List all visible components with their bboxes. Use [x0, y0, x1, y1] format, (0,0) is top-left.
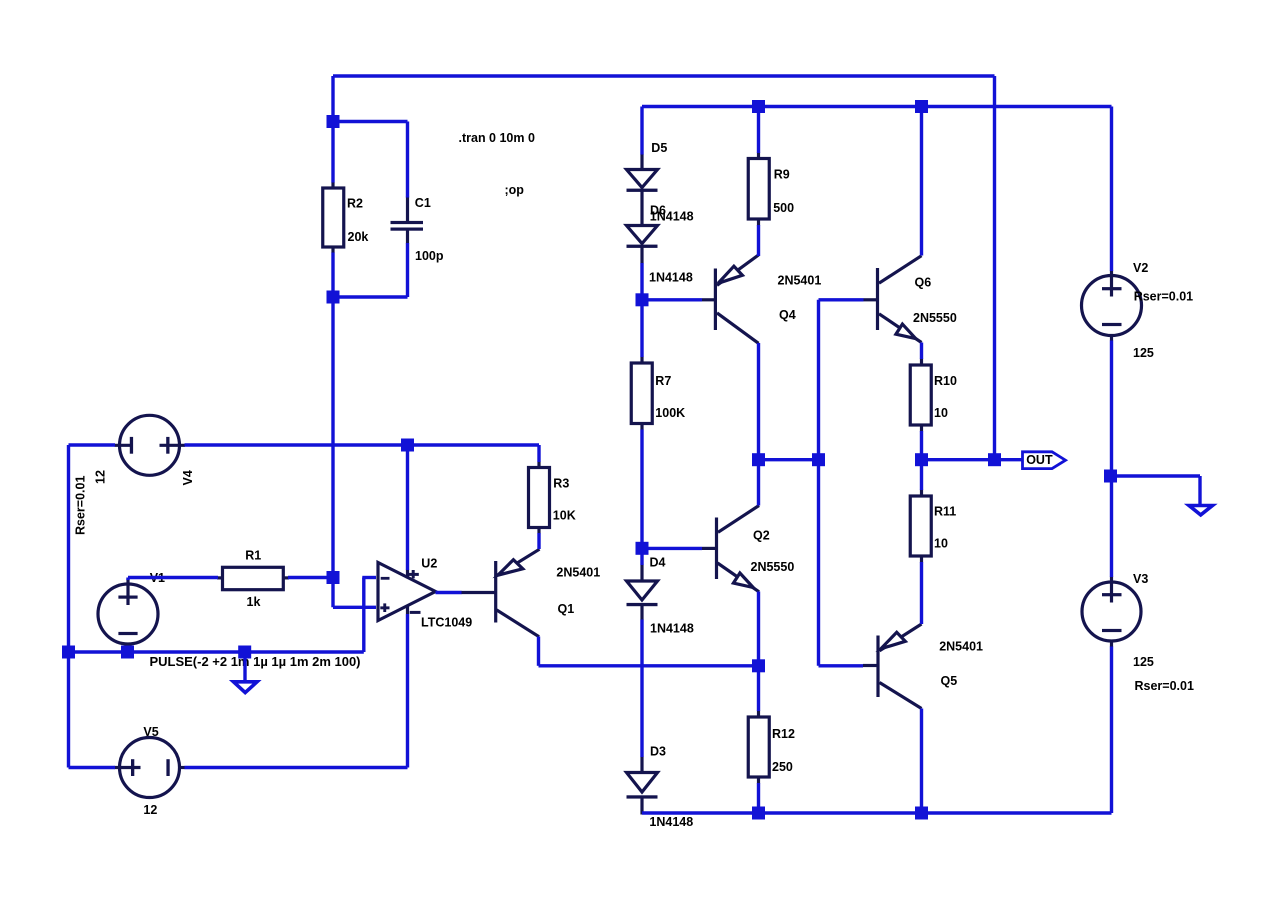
svg-text:D5: D5	[651, 141, 667, 155]
wire opamp vplus feed	[406, 445, 409, 570]
svg-text:2N5401: 2N5401	[556, 566, 600, 580]
resistor R1	[217, 567, 289, 589]
svg-text:250: 250	[772, 760, 793, 774]
wire V1 to R1	[128, 576, 218, 579]
wire R2 column below body	[331, 253, 334, 608]
svg-text:U2: U2	[421, 556, 437, 570]
wire x994 column	[993, 76, 996, 460]
junction node Q4 collector y459	[752, 453, 765, 466]
junction node V2 V3 mid	[1104, 470, 1117, 483]
svg-text:V4: V4	[181, 470, 195, 485]
junction node x818 y459	[812, 453, 825, 466]
voltage source V3	[1082, 577, 1141, 648]
svg-text:Q5: Q5	[941, 674, 958, 688]
resistor R11	[910, 490, 931, 563]
wire R3 top feed	[537, 445, 540, 462]
transistor Q4	[702, 255, 759, 343]
resistor R10	[910, 359, 931, 432]
wire pulse rail y651	[69, 650, 364, 653]
svg-text:20k: 20k	[348, 230, 369, 244]
svg-text:R1: R1	[245, 549, 261, 563]
wire C1 column upper	[406, 122, 409, 198]
net flag OUT	[1023, 452, 1066, 469]
wire Q5 collector column	[920, 709, 923, 814]
svg-text:10K: 10K	[553, 509, 576, 523]
svg-text:Q2: Q2	[753, 529, 770, 543]
wire ground1 stem	[243, 652, 246, 682]
svg-text:R12: R12	[772, 727, 795, 741]
wire Q4 collector to Q2 collector	[757, 343, 760, 506]
wire to right ground	[1111, 474, 1201, 477]
svg-text:R9: R9	[774, 168, 790, 182]
wire y459 to OUT	[922, 458, 1023, 461]
wire left column x68	[67, 445, 70, 768]
wire Q2 base	[642, 547, 702, 550]
wire R12 bottom to rail	[757, 783, 760, 813]
junction node ground tap	[238, 646, 251, 659]
wire Q6 base	[819, 298, 864, 301]
svg-text:1N4148: 1N4148	[649, 271, 693, 285]
wire Q1 collector drop	[537, 637, 540, 666]
transistor Q2	[702, 506, 759, 592]
svg-text:100K: 100K	[655, 406, 685, 420]
wire y666 Q1 collector to junction	[539, 664, 759, 667]
svg-text:OUT: OUT	[1026, 453, 1053, 467]
voltage source V5	[115, 738, 186, 798]
wire inverting input to ground rail	[362, 578, 365, 653]
svg-text:R7: R7	[655, 374, 671, 388]
junction node Q6 collector top	[915, 100, 928, 113]
wire y445 V4 to R3	[185, 443, 540, 446]
junction node y666	[752, 659, 765, 672]
junction node OUT tap	[988, 453, 1001, 466]
svg-text:LTC1049: LTC1049	[421, 616, 472, 630]
diode D3	[627, 757, 658, 815]
wire rail y106	[642, 105, 1112, 108]
wire D6 to R7	[640, 263, 643, 357]
wire R2 column above body	[331, 122, 334, 183]
resistor R7	[631, 357, 652, 431]
svg-text:D6: D6	[650, 204, 666, 218]
junction node V1 bottom	[121, 646, 134, 659]
resistor R12	[748, 711, 769, 784]
junction node R7 bottom	[636, 542, 649, 555]
svg-text:2N5401: 2N5401	[778, 273, 822, 287]
junction node Q4 base rail	[636, 293, 649, 306]
wire y459 between 758 and 818	[759, 458, 819, 461]
wire V3 bottom to rail	[1110, 647, 1113, 814]
wire y767 V5 to feedback column	[185, 766, 408, 769]
diode D4	[627, 565, 658, 621]
svg-text:R11: R11	[934, 505, 956, 519]
svg-text:D4: D4	[650, 556, 666, 570]
svg-text:Q6: Q6	[915, 275, 932, 289]
junction node R10 R11 mid	[915, 453, 928, 466]
wire Q6 emitter to R10	[920, 343, 923, 360]
wire bottom rail y813	[642, 811, 1112, 814]
wire x818 column	[817, 300, 820, 666]
wire Q6 collector column	[920, 107, 923, 256]
wire R1 to junction	[288, 576, 333, 579]
wire between D4 and D3	[640, 620, 643, 758]
resistor R9	[748, 153, 769, 226]
svg-text:R10: R10	[934, 374, 957, 388]
wire Q4 base	[642, 298, 702, 301]
svg-text:100p: 100p	[415, 249, 444, 263]
svg-text:1k: 1k	[247, 595, 261, 609]
svg-text:Rser=0.01: Rser=0.01	[1135, 679, 1194, 693]
svg-text:1N4148: 1N4148	[649, 815, 693, 829]
wire y767 left of V5	[69, 766, 116, 769]
capacitor C1	[391, 197, 424, 244]
wire ground2 stem	[1198, 476, 1201, 505]
junction node feedback y445	[401, 439, 414, 452]
ground at pulse rail	[234, 682, 258, 693]
svg-text:R2: R2	[347, 196, 363, 210]
ground at V2 V3 mid	[1189, 506, 1213, 515]
wire x333 top stub	[331, 76, 334, 122]
svg-text:10: 10	[934, 536, 948, 550]
svg-text:Q4: Q4	[779, 308, 796, 322]
wire R7 to D4	[640, 430, 643, 566]
wire R9 bottom to Q4 emitter	[757, 225, 760, 256]
svg-text:D3: D3	[650, 745, 666, 759]
wire D5 feed	[640, 107, 643, 155]
wire top rail y76	[333, 74, 995, 77]
voltage source V2	[1082, 271, 1142, 342]
junction node Q5 collector rail	[915, 807, 928, 820]
wire C1 column lower	[406, 243, 409, 297]
junction node inverting input	[327, 571, 340, 584]
wire Q5 base	[819, 664, 864, 667]
wire R2 bottom to C1 bottom	[333, 295, 408, 298]
wire R10 to R11	[920, 431, 923, 490]
svg-text:2N5401: 2N5401	[939, 640, 983, 654]
wire V1 bottom pin	[126, 649, 129, 653]
wire V1 top pin	[126, 578, 129, 581]
transistor Q1	[461, 549, 540, 637]
wire y106 to V2 top	[1110, 107, 1113, 272]
wire junction to noninverting input	[333, 606, 376, 609]
svg-text:1N4148: 1N4148	[650, 622, 694, 636]
junction node left rail y651	[62, 646, 75, 659]
svg-text:125: 125	[1133, 346, 1154, 360]
junction node R2 bottom	[327, 291, 340, 304]
svg-text:2N5550: 2N5550	[913, 311, 957, 325]
wire R3 bottom to Q1 emitter	[537, 533, 540, 549]
transistor Q6	[864, 256, 922, 343]
wire inverting input stub	[362, 576, 376, 579]
op-amp U2	[378, 563, 436, 621]
svg-text:500: 500	[773, 201, 794, 215]
wire junction to R12 top	[757, 666, 760, 711]
junction node R2 top	[327, 115, 340, 128]
wire Q2 emitter drop	[757, 592, 760, 666]
svg-text:12: 12	[93, 470, 107, 484]
wire R11 to Q5 emitter	[920, 562, 923, 624]
voltage source V1	[98, 579, 158, 650]
svg-text:Q1: Q1	[558, 602, 575, 616]
voltage source V4	[115, 415, 186, 475]
wire opamp vminus down	[406, 614, 409, 768]
svg-text:Rser=0.01: Rser=0.01	[1134, 290, 1193, 304]
svg-text:V5: V5	[143, 725, 158, 739]
wire R9 top feed	[757, 107, 760, 154]
junction node R12 bottom rail	[752, 807, 765, 820]
diode D6	[627, 226, 658, 264]
wire V2 bottom to V3 top	[1110, 341, 1113, 578]
svg-text:C1: C1	[415, 196, 431, 210]
svg-text:2N5550: 2N5550	[751, 560, 795, 574]
svg-text:V3: V3	[1133, 572, 1148, 586]
wire R2 top to C1 top	[333, 120, 408, 123]
resistor R2	[323, 182, 344, 253]
svg-text:R3: R3	[553, 476, 569, 490]
svg-text:10: 10	[934, 406, 948, 420]
resistor R3	[529, 462, 550, 534]
svg-text:12: 12	[143, 803, 157, 817]
transistor Q5	[863, 624, 922, 709]
svg-text:.tran 0 10m 0: .tran 0 10m 0	[459, 131, 535, 145]
svg-text:Rser=0.01: Rser=0.01	[74, 476, 88, 535]
svg-text:125: 125	[1133, 655, 1154, 669]
svg-text:;op: ;op	[505, 183, 525, 197]
junction node R9 top	[752, 100, 765, 113]
diode D5	[627, 154, 658, 226]
svg-text:PULSE(-2 +2 1m 1µ 1µ 1m 2m 100: PULSE(-2 +2 1m 1µ 1µ 1m 2m 100)	[150, 655, 361, 669]
svg-text:V2: V2	[1133, 261, 1148, 275]
wire opamp output	[436, 591, 462, 594]
wire y445 left of V4	[69, 443, 116, 446]
